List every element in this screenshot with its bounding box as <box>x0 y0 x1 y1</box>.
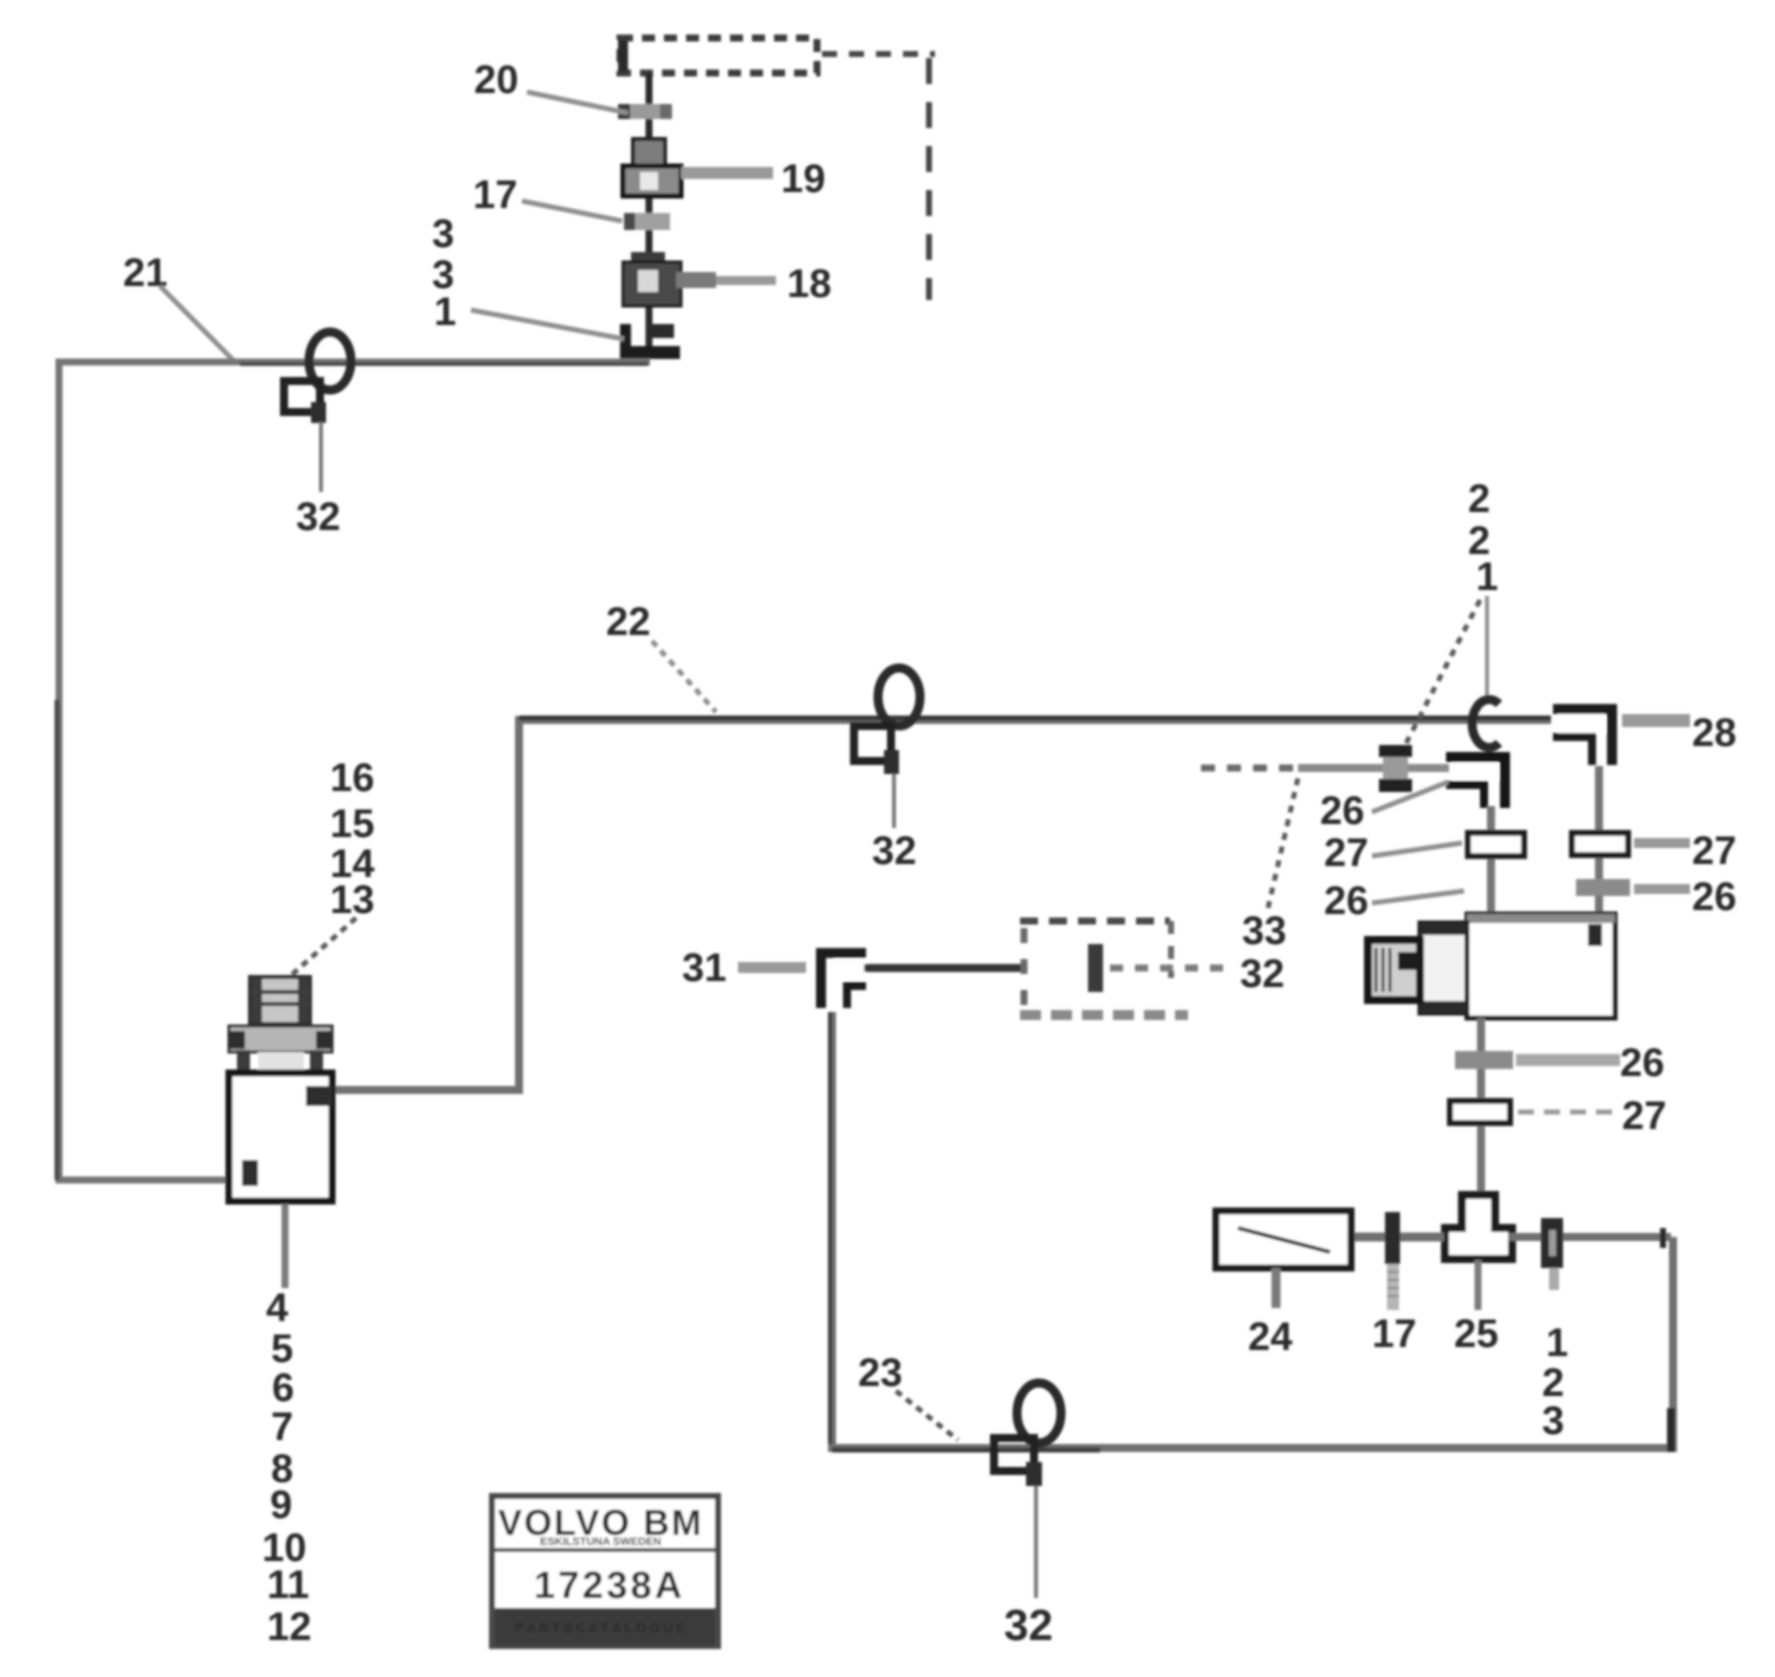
tube elbow26 to valve <box>1487 806 1495 917</box>
pump dashed box <box>1020 921 1235 1015</box>
label 26 (left lower) with leader <box>1324 879 1464 923</box>
svg-text:6: 6 <box>272 1366 294 1410</box>
svg-text:1: 1 <box>434 290 456 334</box>
svg-text:ESKILSTUNA SWEDEN: ESKILSTUNA SWEDEN <box>540 1536 661 1548</box>
svg-text:11: 11 <box>267 1563 309 1607</box>
svg-text:27: 27 <box>1324 831 1369 875</box>
label 26 (below) with leader <box>1516 1041 1665 1085</box>
svg-text:15: 15 <box>330 802 375 846</box>
svg-text:4: 4 <box>266 1286 289 1330</box>
fitting right of tee <box>1541 1218 1563 1290</box>
washer 26 right <box>1576 879 1630 896</box>
svg-text:16: 16 <box>330 756 375 800</box>
pipe 21 <box>57 362 650 1180</box>
plate 24 <box>1216 1211 1351 1268</box>
dashed vertical line <box>926 58 932 300</box>
svg-text:3: 3 <box>432 212 454 256</box>
label 27 (right) with leader <box>1634 829 1737 873</box>
svg-text:26: 26 <box>1324 879 1369 923</box>
svg-text:9: 9 <box>270 1483 292 1527</box>
svg-text:12: 12 <box>267 1605 312 1649</box>
svg-text:13: 13 <box>330 878 375 922</box>
label 13 with dotted leader <box>288 878 375 978</box>
tube elbow28 to washers <box>1595 766 1603 917</box>
svg-text:23: 23 <box>858 1351 903 1395</box>
svg-text:3: 3 <box>1542 1399 1564 1443</box>
svg-text:26: 26 <box>1620 1041 1665 1085</box>
svg-text:17238A: 17238A <box>534 1565 685 1607</box>
label 27 (below) with leader <box>1518 1094 1667 1138</box>
label 22 with dotted leader <box>606 600 716 712</box>
svg-text:18: 18 <box>787 262 832 306</box>
pipe elbow 31 to pump <box>864 964 1027 972</box>
elbow 31 <box>821 953 866 1008</box>
elbow 26 left <box>1446 757 1505 808</box>
svg-text:2: 2 <box>1468 477 1490 521</box>
stud 17 on pipe <box>1385 1212 1400 1310</box>
svg-text:19: 19 <box>781 157 826 201</box>
svg-text:7: 7 <box>271 1405 293 1449</box>
svg-text:24: 24 <box>1248 1315 1293 1359</box>
label 31 with leader <box>682 946 806 990</box>
svg-text:33: 33 <box>1242 909 1287 953</box>
volvo bm plate <box>492 1496 718 1646</box>
svg-text:P A R T S C A T A L O G U E: P A R T S C A T A L O G U E <box>515 1620 685 1635</box>
leader from reservoir to parts list <box>282 1204 289 1288</box>
svg-text:17: 17 <box>473 173 518 217</box>
valve left cap <box>1420 923 1467 1013</box>
tube from hose 20 down <box>646 73 653 348</box>
svg-text:31: 31 <box>682 946 727 990</box>
washer 27 left <box>1468 833 1524 856</box>
pipe tee to right corner <box>1508 1233 1671 1241</box>
pipe 22 <box>333 718 1551 1090</box>
label 1 with leader to elbow <box>434 290 624 339</box>
label 17 with leader <box>473 173 622 221</box>
svg-text:32: 32 <box>1240 952 1285 996</box>
svg-text:32: 32 <box>296 495 341 539</box>
svg-text:25: 25 <box>1454 1312 1499 1356</box>
hose end fitting (target of labels 2/22/1) <box>1379 745 1412 792</box>
stem and label 25 <box>1454 1260 1499 1356</box>
svg-text:32: 32 <box>1004 1601 1053 1650</box>
dashed line from hose 20 to the right <box>822 51 935 57</box>
washer 27 below valve <box>1450 1101 1510 1123</box>
label 27 (left) with leader <box>1324 831 1462 875</box>
washer at top (target of label 20) <box>618 104 672 119</box>
elbow 28 <box>1553 709 1612 765</box>
label 20 with leader <box>474 58 628 113</box>
pipe tee to plate 24 <box>1351 1233 1444 1242</box>
solenoid valve body <box>1467 914 1615 1018</box>
nut 18 <box>623 252 681 306</box>
clamp 32 on pipe 21 <box>284 332 351 492</box>
elbow at end of pipe 21 <box>620 324 680 359</box>
label 26 (right) with leader <box>1634 875 1737 919</box>
washer 27 right <box>1572 833 1628 855</box>
washer 17 <box>624 213 670 230</box>
label 24 with leader <box>1248 1268 1293 1359</box>
washer 26 below valve <box>1455 1051 1513 1069</box>
svg-text:1: 1 <box>1476 555 1498 599</box>
label 26 (left upper) with leader <box>1320 782 1448 833</box>
svg-text:32: 32 <box>872 829 917 873</box>
fitting 19 <box>623 139 681 196</box>
svg-text:26: 26 <box>1692 875 1737 919</box>
svg-text:22: 22 <box>606 600 651 644</box>
tube valve to tee <box>1477 1018 1485 1198</box>
svg-text:20: 20 <box>474 58 519 102</box>
svg-text:5: 5 <box>271 1327 293 1371</box>
label 1 (right stack) with leaders <box>1400 555 1498 755</box>
clamp 32 on pipe 22 <box>854 668 920 828</box>
svg-text:17: 17 <box>1372 1312 1417 1356</box>
hose 20 dashed outline <box>618 38 817 73</box>
label 18 with leader <box>676 262 832 306</box>
label 21 with leader <box>123 251 233 360</box>
svg-text:27: 27 <box>1692 829 1737 873</box>
clamp 32 on pipe 23 <box>994 1383 1061 1598</box>
label 19 with leader <box>681 157 826 201</box>
clamp C on pipe 22 <box>1472 700 1499 748</box>
label 28 with leader <box>1622 711 1737 755</box>
reservoir 13 <box>228 977 333 1201</box>
pipe 23 <box>830 1012 1673 1452</box>
svg-text:1: 1 <box>1546 1321 1568 1365</box>
dashed hose line into elbow 26 <box>1201 765 1449 772</box>
valve connector plug <box>1368 940 1420 1000</box>
tee fitting 25 <box>1445 1195 1512 1259</box>
label 23 with dotted leader <box>858 1351 958 1440</box>
svg-text:26: 26 <box>1320 789 1365 833</box>
labels 33 32 with dotted leader <box>1240 778 1298 996</box>
svg-text:28: 28 <box>1692 711 1737 755</box>
svg-text:27: 27 <box>1622 1094 1667 1138</box>
